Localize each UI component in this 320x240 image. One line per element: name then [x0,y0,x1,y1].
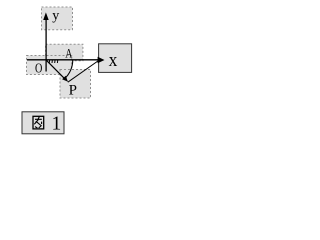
ray OP arrowhead [62,76,68,82]
y-axis arrowhead [43,12,49,20]
svg-text:O: O [35,60,43,76]
svg-text:y: y [52,9,59,24]
svg-text:P: P [69,82,77,98]
caption glyph 图 (drawn) [33,116,44,129]
x label box (solid border) [99,44,132,73]
angle tick dashes below x-axis [49,61,57,64]
svg-text:x: x [109,49,118,70]
terminal side ray OP [46,60,64,78]
x-axis arrowhead [98,57,105,64]
P text box (dashed border) [60,70,91,99]
chord line from x-axis arrow to P [68,60,100,82]
A label text box (dashed border) [46,44,83,61]
x-axis [27,59,99,61]
svg-text:1: 1 [52,113,62,134]
y-axis [45,16,47,72]
figure caption box (solid border) [22,112,64,134]
circle arc from A to terminal side [64,60,73,80]
origin/axes text box (dashed border) [27,56,72,75]
y label text box (dashed border) [42,7,73,30]
svg-text:A: A [65,47,73,61]
